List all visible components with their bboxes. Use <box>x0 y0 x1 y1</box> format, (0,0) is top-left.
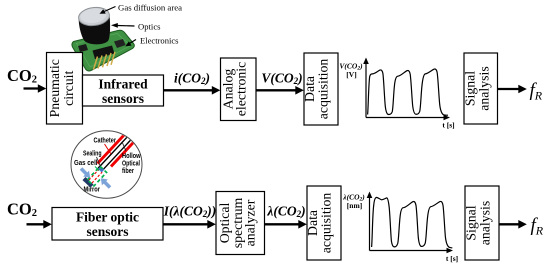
wire arrow signal analysis to fR (bottom) <box>499 223 519 225</box>
svg-text:sensors: sensors <box>102 91 144 106</box>
graph 1 waveform <box>368 69 448 115</box>
blue flow arrow into gas cell (lower right) <box>98 175 113 190</box>
svg-text:I(λ(CO2)): I(λ(CO2)) <box>163 204 217 220</box>
svg-text:Gas cell: Gas cell <box>74 158 98 167</box>
sensor photo: gold pins <box>94 52 116 70</box>
wire arrow signal analysis to fR (top) <box>498 88 519 90</box>
svg-text:CO2: CO2 <box>7 200 37 220</box>
svg-text:t [s]: t [s] <box>446 254 458 263</box>
hollow optical fiber line upper <box>98 133 132 169</box>
photo label arrow to electronics <box>129 40 137 45</box>
wire arrow CO2 to fiber optic sensors <box>27 223 44 225</box>
leader line gas cell <box>95 167 99 171</box>
svg-text:acquisition: acquisition <box>319 193 334 254</box>
svg-text:Gas diffusion area: Gas diffusion area <box>118 3 182 13</box>
svg-text:analyzer: analyzer <box>242 199 257 246</box>
blue flow arrow into gas cell (upper left) <box>78 166 93 181</box>
wire arrow analyzer to data acquisition, label lambda(CO2) <box>265 223 299 225</box>
wire arrow infrared to analog, label i(CO2) <box>164 89 213 91</box>
graph 2 axes <box>369 196 371 251</box>
svg-text:analysis: analysis <box>478 201 493 245</box>
svg-text:Sealing: Sealing <box>83 149 102 158</box>
svg-text:Catheter: Catheter <box>94 136 117 145</box>
block: Optical spectrum analyzer <box>216 192 265 255</box>
svg-text:CO2: CO2 <box>7 66 37 86</box>
graph 2 waveform <box>372 197 453 248</box>
graph 1 axes <box>365 62 367 118</box>
sensor photo: small chips on board <box>78 44 88 52</box>
sealing (blue patch) <box>98 166 105 172</box>
svg-text:Pneumatic: Pneumatic <box>47 59 62 117</box>
fiber tube group (rotated -47deg at sealing point, clipped by circle) <box>94 130 138 175</box>
circle diagram: fiber sensor cross-section circle <box>71 131 142 199</box>
sensor photo: black cylinder body <box>79 15 110 44</box>
block: Signal analysis (bottom) <box>465 186 499 260</box>
block: Fiber optic sensors <box>52 208 163 241</box>
svg-text:fiber: fiber <box>122 166 134 175</box>
svg-text:circuit: circuit <box>61 71 76 106</box>
svg-text:[nm]: [nm] <box>347 201 362 210</box>
block: Signal analysis (top) <box>464 53 498 124</box>
block: Data acquisition (top) <box>304 53 338 125</box>
block: Data acquisition (bottom) <box>307 186 341 260</box>
photo label arrow to optics <box>118 25 135 28</box>
gas cell red dashed walls <box>89 169 102 183</box>
svg-text:Signal: Signal <box>463 71 478 106</box>
block: Infrared sensors <box>83 75 164 106</box>
sensor photo: cylinder gray top <box>78 6 111 28</box>
sensor photo: pin header connector <box>93 46 115 60</box>
leader line hollow optical fiber <box>123 143 127 151</box>
svg-text:fR: fR <box>531 215 544 238</box>
wire arrow CO2 to pneumatic circuit <box>24 87 39 89</box>
svg-text:t [s]: t [s] <box>442 121 454 130</box>
wire arrow fiber optic to optical spectrum analyzer, label I(lambda(CO2)) <box>163 223 208 225</box>
block: Analog electronic <box>221 58 257 121</box>
svg-text:analysis: analysis <box>477 66 492 110</box>
svg-text:V(CO2): V(CO2) <box>261 71 302 87</box>
svg-text:i(CO2): i(CO2) <box>174 71 210 87</box>
gas cell green dashed outline <box>87 166 106 186</box>
hollow optical fiber line lower <box>101 136 135 172</box>
svg-text:λ(CO2): λ(CO2) <box>266 204 305 220</box>
block: Pneumatic circuit <box>47 53 83 125</box>
svg-text:[V]: [V] <box>346 70 356 79</box>
svg-text:Signal: Signal <box>464 205 479 240</box>
leader line sealing <box>97 157 101 166</box>
svg-text:acquisition: acquisition <box>316 59 331 120</box>
svg-text:electronic: electronic <box>234 62 249 116</box>
svg-text:Mirror: Mirror <box>84 184 101 193</box>
photo label arrow to gas diffusion area <box>103 7 116 13</box>
svg-text:sensors: sensors <box>86 224 128 239</box>
mirror (navy bar) <box>82 177 93 188</box>
svg-text:fR: fR <box>530 80 543 103</box>
catheter red stripe upper <box>96 130 129 165</box>
sensor photo: green PCB board <box>72 30 134 71</box>
svg-text:Electronics: Electronics <box>140 36 179 46</box>
svg-text:Optics: Optics <box>138 22 161 32</box>
svg-text:Fiber optic: Fiber optic <box>76 210 139 225</box>
leader line catheter <box>105 144 112 154</box>
wire arrow analog to data acquisition, label V(CO2) <box>256 89 296 91</box>
catheter red stripe lower <box>110 138 138 168</box>
svg-text:Infrared: Infrared <box>98 77 148 92</box>
